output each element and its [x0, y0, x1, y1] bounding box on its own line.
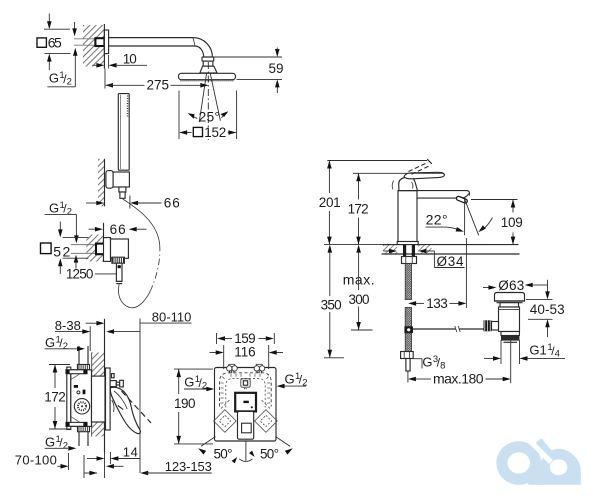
svg-text:G: G — [184, 375, 194, 390]
svg-text:109: 109 — [501, 215, 523, 230]
svg-text:52: 52 — [53, 244, 70, 260]
svg-text:22°: 22° — [426, 211, 448, 227]
svg-text:2: 2 — [67, 77, 72, 88]
svg-text:Ø34: Ø34 — [437, 254, 464, 269]
svg-text:G: G — [49, 200, 59, 215]
svg-text:G: G — [49, 71, 59, 86]
svg-text:66: 66 — [164, 196, 180, 211]
svg-text:G: G — [45, 434, 55, 449]
svg-text:300: 300 — [349, 292, 370, 307]
svg-text:2: 2 — [63, 341, 68, 352]
svg-text:10: 10 — [123, 52, 137, 67]
svg-text:152: 152 — [204, 125, 226, 140]
svg-text:133: 133 — [426, 296, 448, 311]
svg-text:G1: G1 — [529, 343, 546, 358]
svg-text:25°: 25° — [199, 108, 221, 124]
svg-text:123-153: 123-153 — [165, 459, 212, 474]
svg-text:1250: 1250 — [66, 266, 94, 281]
svg-text:80-110: 80-110 — [152, 309, 192, 324]
svg-text:66: 66 — [110, 222, 126, 237]
svg-text:max.180: max.180 — [433, 371, 484, 387]
svg-text:350: 350 — [321, 298, 342, 313]
svg-text:2: 2 — [63, 440, 68, 451]
svg-text:201: 201 — [319, 195, 341, 210]
svg-text:2: 2 — [302, 377, 307, 388]
svg-text:4: 4 — [555, 349, 560, 360]
svg-text:59: 59 — [269, 61, 284, 76]
svg-text:14: 14 — [123, 444, 138, 459]
svg-text:172: 172 — [44, 390, 66, 405]
svg-text:190: 190 — [174, 396, 196, 411]
svg-text:70-100: 70-100 — [15, 452, 57, 467]
svg-text:116: 116 — [234, 345, 256, 360]
svg-text:Ø63: Ø63 — [498, 278, 524, 293]
svg-text:65: 65 — [48, 34, 62, 50]
svg-text:40-53: 40-53 — [530, 302, 565, 317]
svg-text:G: G — [45, 335, 55, 350]
svg-text:G: G — [285, 371, 295, 386]
svg-text:172: 172 — [348, 202, 369, 217]
svg-text:8-38: 8-38 — [55, 318, 81, 333]
svg-text:50°: 50° — [260, 447, 279, 462]
svg-text:50°: 50° — [214, 447, 233, 462]
svg-text:2: 2 — [67, 206, 72, 217]
svg-text:G: G — [422, 354, 432, 369]
svg-text:275: 275 — [147, 77, 170, 92]
